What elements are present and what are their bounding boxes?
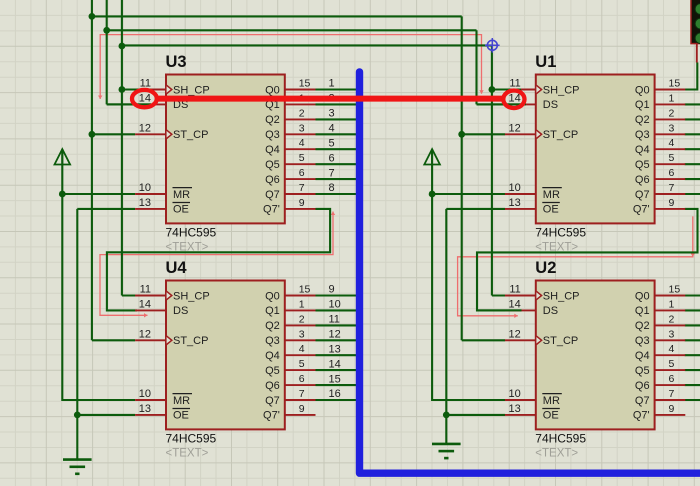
svg-text:Q7: Q7 [635,189,650,201]
svg-text:10: 10 [509,388,521,400]
svg-text:Q0: Q0 [635,84,650,96]
svg-text:Q0: Q0 [635,290,650,302]
svg-text:SH_CP: SH_CP [543,84,580,96]
svg-text:OE: OE [543,204,559,216]
svg-text:SH_CP: SH_CP [173,84,210,96]
svg-text:Q2: Q2 [265,114,280,126]
svg-text:Q3: Q3 [265,129,280,141]
svg-text:12: 12 [509,329,521,341]
svg-text:Q5: Q5 [265,365,280,377]
svg-text:5: 5 [299,358,305,370]
svg-text:14: 14 [139,93,151,105]
svg-text:3: 3 [329,108,335,120]
svg-text:Q2: Q2 [265,320,280,332]
svg-text:DS: DS [173,305,188,317]
svg-text:14: 14 [509,299,521,311]
svg-text:Q6: Q6 [635,380,650,392]
svg-text:3: 3 [669,122,675,134]
svg-text:7: 7 [299,388,305,400]
svg-text:9: 9 [299,403,305,415]
svg-text:Q3: Q3 [635,129,650,141]
svg-text:Q3: Q3 [265,335,280,347]
svg-text:Q7: Q7 [635,395,650,407]
svg-text:DS: DS [543,305,558,317]
svg-text:6: 6 [669,373,675,385]
svg-text:15: 15 [669,284,681,296]
svg-text:1: 1 [329,78,335,90]
svg-text:13: 13 [509,197,521,209]
svg-text:OE: OE [173,410,189,422]
svg-text:SH_CP: SH_CP [173,290,210,302]
svg-text:14: 14 [329,358,341,370]
svg-text:6: 6 [299,167,305,179]
svg-text:7: 7 [669,388,675,400]
svg-text:Q5: Q5 [265,159,280,171]
svg-text:74HC595: 74HC595 [535,226,586,240]
svg-text:DS: DS [543,99,558,111]
svg-text:ST_CP: ST_CP [173,129,208,141]
svg-text:6: 6 [669,167,675,179]
svg-text:10: 10 [509,182,521,194]
svg-text:Q1: Q1 [635,305,650,317]
svg-text:15: 15 [329,373,341,385]
svg-text:U2: U2 [535,259,556,277]
svg-text:MR: MR [543,189,560,201]
svg-text:5: 5 [669,152,675,164]
svg-text:15: 15 [299,78,311,90]
svg-text:12: 12 [139,329,151,341]
svg-text:9: 9 [669,403,675,415]
svg-text:15: 15 [299,284,311,296]
svg-text:Q4: Q4 [265,350,280,362]
svg-text:<TEXT>: <TEXT> [535,448,578,460]
svg-text:Q6: Q6 [635,174,650,186]
svg-text:14: 14 [509,93,521,105]
svg-text:U4: U4 [166,259,188,277]
svg-text:12: 12 [509,123,521,135]
svg-text:MR: MR [173,395,190,407]
svg-text:OE: OE [173,204,189,216]
svg-text:7: 7 [329,167,335,179]
svg-text:Q5: Q5 [635,365,650,377]
svg-text:Q7': Q7' [633,204,650,216]
svg-text:11: 11 [329,314,340,326]
svg-text:Q7': Q7' [263,204,280,216]
svg-text:9: 9 [299,197,305,209]
svg-text:Q6: Q6 [265,380,280,392]
svg-text:12: 12 [139,123,151,135]
svg-text:8: 8 [329,182,335,194]
svg-text:ST_CP: ST_CP [543,335,578,347]
svg-text:Q0: Q0 [265,84,280,96]
svg-text:<TEXT>: <TEXT> [535,242,578,254]
svg-text:Q7': Q7' [263,410,280,422]
svg-text:11: 11 [140,284,151,296]
svg-text:10: 10 [139,388,151,400]
svg-text:<TEXT>: <TEXT> [166,448,209,460]
svg-text:Q1: Q1 [635,99,650,111]
svg-text:Q4: Q4 [635,350,650,362]
svg-text:1: 1 [669,298,675,310]
svg-text:74HC595: 74HC595 [535,432,586,446]
svg-text:U3: U3 [166,53,187,71]
svg-text:7: 7 [299,182,305,194]
svg-text:2: 2 [299,313,305,325]
svg-text:4: 4 [669,343,675,355]
svg-text:5: 5 [669,358,675,370]
svg-text:5: 5 [329,137,335,149]
svg-text:12: 12 [329,329,341,341]
svg-text:7: 7 [669,182,675,194]
svg-text:Q0: Q0 [265,290,280,302]
svg-text:Q2: Q2 [635,114,650,126]
svg-text:6: 6 [299,373,305,385]
svg-text:4: 4 [329,123,335,135]
svg-text:Q1: Q1 [265,305,280,317]
svg-text:3: 3 [299,122,305,134]
svg-text:14: 14 [139,299,151,311]
svg-text:1: 1 [299,298,305,310]
svg-text:74HC595: 74HC595 [166,226,217,240]
svg-text:Q3: Q3 [635,335,650,347]
svg-text:OE: OE [543,410,559,422]
svg-text:Q7: Q7 [265,189,280,201]
svg-text:10: 10 [329,299,341,311]
svg-text:Q7': Q7' [633,410,650,422]
svg-text:13: 13 [509,403,521,415]
svg-text:11: 11 [509,284,520,296]
svg-text:MR: MR [173,189,190,201]
svg-text:11: 11 [509,78,520,90]
svg-text:74HC595: 74HC595 [166,432,217,446]
svg-text:Q5: Q5 [635,159,650,171]
svg-text:2: 2 [669,313,675,325]
svg-text:6: 6 [329,152,335,164]
svg-text:U1: U1 [535,53,556,71]
svg-text:13: 13 [329,343,341,355]
svg-text:15: 15 [669,78,681,90]
svg-text:5: 5 [299,152,305,164]
svg-text:10: 10 [139,182,151,194]
svg-text:1: 1 [669,92,675,104]
svg-text:13: 13 [139,403,151,415]
svg-text:Q6: Q6 [265,174,280,186]
svg-text:4: 4 [299,343,305,355]
svg-text:<TEXT>: <TEXT> [166,242,209,254]
svg-text:9: 9 [329,284,335,296]
svg-text:ST_CP: ST_CP [173,335,208,347]
svg-text:13: 13 [139,197,151,209]
svg-text:9: 9 [669,197,675,209]
svg-text:Q7: Q7 [265,395,280,407]
svg-text:3: 3 [299,328,305,340]
svg-text:Q4: Q4 [265,144,280,156]
svg-text:4: 4 [669,137,675,149]
svg-text:2: 2 [669,107,675,119]
svg-text:SH_CP: SH_CP [543,290,580,302]
svg-text:MR: MR [543,395,560,407]
svg-text:16: 16 [329,388,341,400]
svg-text:3: 3 [669,328,675,340]
svg-text:ST_CP: ST_CP [543,129,578,141]
svg-text:4: 4 [299,137,305,149]
svg-text:2: 2 [299,107,305,119]
svg-text:Q4: Q4 [635,144,650,156]
svg-text:Q2: Q2 [635,320,650,332]
